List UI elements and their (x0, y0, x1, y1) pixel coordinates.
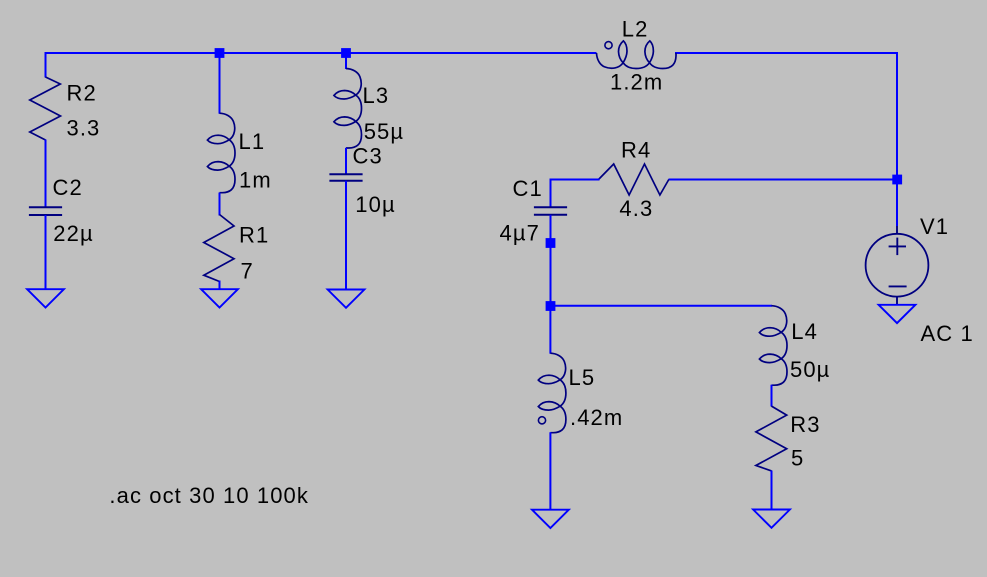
voltage source V1 circle (866, 234, 929, 297)
svg-text:1.2m: 1.2m (610, 70, 663, 95)
wire R2 top lead (45, 52, 47, 78)
svg-text:R4: R4 (621, 138, 651, 163)
wire right vertical to V1 (896, 52, 898, 226)
wire L5 top lead (549, 306, 551, 354)
inductor L3 (334, 69, 362, 149)
svg-text:C2: C2 (53, 175, 83, 200)
svg-text:R1: R1 (239, 223, 269, 248)
wire C2 to ground (45, 215, 47, 289)
svg-text:5: 5 (791, 446, 804, 471)
wire C1 top lead (550, 180, 552, 208)
inductor L1 (207, 113, 235, 193)
svg-text:55µ: 55µ (364, 119, 404, 144)
wire top-right horizontal (675, 52, 898, 54)
svg-text:C1: C1 (513, 176, 543, 201)
wire L4 to R3 (771, 385, 773, 407)
V1 plus sign (889, 245, 906, 247)
svg-text:C3: C3 (353, 144, 383, 169)
resistor R4 (599, 164, 669, 195)
ground G6 (753, 510, 790, 528)
svg-text:L1: L1 (239, 129, 266, 154)
svg-text:.42m: .42m (570, 405, 623, 430)
node junction below C1 (546, 238, 556, 248)
node junction R4 / V1 (892, 175, 902, 185)
node junction top wire / L1 (215, 48, 225, 58)
svg-text:4.3: 4.3 (619, 196, 653, 221)
wire L3 top lead (345, 53, 347, 69)
svg-text:L3: L3 (363, 83, 390, 108)
ground G3 (328, 290, 365, 308)
svg-text:7: 7 (241, 259, 254, 284)
svg-text:10µ: 10µ (355, 192, 395, 217)
wire R3 to ground (771, 471, 773, 510)
wire L3 to C3 (345, 148, 347, 175)
wire top-left horizontal (45, 52, 597, 54)
svg-text:L2: L2 (622, 17, 649, 42)
capacitor C3 (329, 173, 362, 175)
phase dot L5 (538, 417, 545, 424)
svg-text:1m: 1m (239, 168, 272, 193)
svg-text:L5: L5 (569, 365, 596, 390)
ground G1 (27, 289, 64, 307)
inductor L4 (759, 306, 787, 386)
node junction L5 / L4 row (546, 301, 556, 311)
capacitor C1 (534, 206, 567, 208)
V1 minus sign (889, 285, 907, 287)
wire L5 to ground (549, 432, 551, 510)
svg-text:L4: L4 (791, 319, 818, 344)
node junction top wire / L3 (341, 48, 351, 58)
inductor L5 (538, 353, 566, 433)
ground G2 (201, 289, 238, 307)
svg-text:50µ: 50µ (790, 357, 830, 382)
inductor L2 (597, 41, 677, 69)
svg-text:3.3: 3.3 (67, 116, 101, 141)
svg-text:.ac oct 30 10 100k: .ac oct 30 10 100k (109, 483, 309, 508)
wire R4 right to V1 node (669, 179, 899, 181)
svg-text:R3: R3 (790, 412, 820, 437)
wire R2 to C2 (45, 140, 47, 209)
resistor R1 (204, 215, 234, 282)
wire R1 to ground (219, 281, 221, 290)
capacitor C2 (29, 206, 62, 208)
wire C1 bottom lead (550, 215, 552, 243)
wire L1 top lead (219, 53, 221, 114)
svg-text:22µ: 22µ (53, 221, 93, 246)
wire C3 to ground (345, 181, 347, 290)
V1 bottom lead (896, 297, 898, 305)
svg-text:4µ7: 4µ7 (500, 221, 540, 246)
wire C1 top to R4 (550, 179, 600, 181)
wire C1 node to row node (550, 243, 552, 306)
ground G5 (532, 510, 569, 528)
V1 top lead (896, 226, 898, 234)
svg-text:AC 1: AC 1 (921, 321, 974, 346)
resistor R2 (30, 77, 61, 140)
wire row to L4 (551, 305, 773, 307)
ground G4 (879, 305, 916, 323)
wire L1 to R1 (219, 193, 221, 216)
resistor R3 (756, 406, 787, 471)
svg-text:R2: R2 (67, 81, 97, 106)
svg-text:V1: V1 (920, 214, 949, 239)
phase dot L2 (605, 42, 612, 49)
